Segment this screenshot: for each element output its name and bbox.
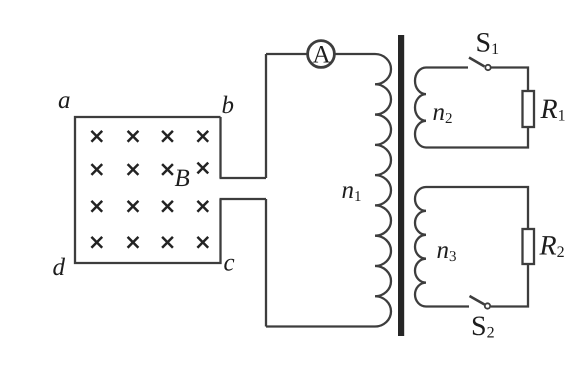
wire primary left vertical lower	[265, 199, 267, 327]
svg-text:a: a	[58, 87, 71, 114]
resistor R2	[523, 229, 535, 264]
svg-text:S1: S1	[476, 28, 500, 59]
transformer core bar	[398, 35, 404, 336]
wire primary top to ammeter	[266, 53, 307, 55]
svg-text:A: A	[313, 42, 331, 69]
wire ammeter to coil n1	[336, 53, 376, 55]
svg-text:n3: n3	[437, 237, 457, 265]
svg-text:c: c	[224, 250, 235, 277]
inductor coil n1 (primary winding)	[375, 54, 391, 327]
svg-text:R2: R2	[539, 231, 565, 262]
wire S2 left to n3 bottom	[426, 305, 469, 307]
wire primary bottom	[266, 325, 375, 327]
svg-text:b: b	[222, 92, 235, 119]
wire n2 top to switch S1	[426, 66, 468, 68]
wire primary left vertical upper	[265, 54, 267, 178]
wire S1 to top-right corner	[491, 68, 528, 92]
svg-text:R1: R1	[540, 94, 566, 125]
wire n3 top to top-right corner circuit2	[426, 187, 528, 229]
switch S1 pivot dot	[485, 65, 490, 70]
svg-text:n1: n1	[342, 177, 362, 205]
svg-text:d: d	[53, 254, 66, 281]
wire R1 bottom to n2 bottom	[426, 127, 528, 148]
wire bottom stub from c-side of loop to primary	[220, 198, 267, 200]
switch S1 blade	[469, 58, 485, 67]
switch S2 pivot dot	[485, 303, 490, 308]
square loop abcd	[75, 117, 221, 263]
x field marks (B into page)	[91, 131, 208, 248]
switch S2 blade	[470, 296, 485, 305]
svg-text:S2: S2	[471, 311, 495, 342]
svg-text:n2: n2	[433, 99, 453, 127]
inductor coil n3 (secondary winding bottom)	[415, 187, 426, 306]
ammeter A	[308, 41, 335, 68]
wire top stub from b-side of loop to primary	[220, 177, 267, 179]
svg-text:B: B	[175, 165, 190, 192]
inductor coil n2 (secondary winding top)	[415, 68, 426, 148]
wire R2 bottom down to bottom wire	[491, 264, 528, 307]
resistor R1	[523, 91, 535, 127]
